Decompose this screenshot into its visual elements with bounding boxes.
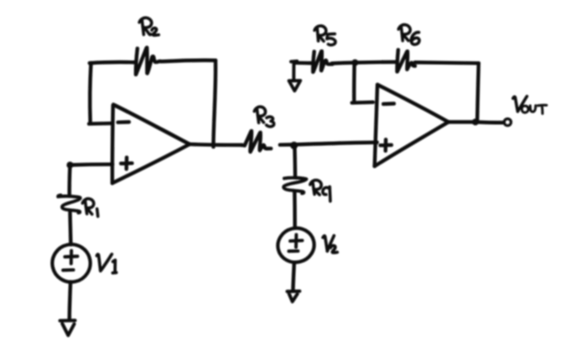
ground at R5 — [289, 61, 300, 91]
wire to output terminal — [475, 120, 502, 124]
resistor R5 — [311, 51, 332, 72]
ground under V2 — [287, 291, 299, 301]
wire R5 to node C — [332, 61, 355, 66]
wire U1 noninverting input — [70, 162, 113, 166]
label R6 — [399, 25, 420, 45]
resistor R6 — [396, 50, 415, 72]
wire node B down to R4 — [293, 145, 297, 177]
wire node C to R6 — [355, 60, 396, 64]
V2 plus sign — [290, 235, 302, 248]
wire R4 to V2 — [293, 192, 297, 229]
wire V1 to ground — [69, 282, 70, 320]
wire R3 to node B — [280, 143, 293, 147]
wire U1 output — [190, 142, 243, 147]
wire ground to R5 — [294, 61, 311, 65]
V2 minus sign — [289, 249, 298, 252]
wire node C down to U2 inverting input — [352, 63, 356, 100]
wire R6 to right corner — [415, 61, 479, 65]
wire right vertical down to output — [477, 63, 478, 121]
wire feedback left vertical (R2 loop) — [90, 63, 91, 123]
node A junction dot — [67, 162, 74, 169]
V1 plus sign — [65, 251, 78, 264]
wire right vertical of R2 loop — [213, 60, 215, 146]
resistor R2 — [133, 48, 160, 75]
U2 minus sign — [383, 102, 394, 106]
U1 plus sign — [121, 158, 132, 170]
resistor R1 — [58, 195, 80, 213]
wire node B to U2 noninverting input — [294, 142, 378, 144]
wire top right segment from R2 — [161, 60, 216, 61]
wire R1 to V1 — [68, 211, 73, 245]
output terminal circle — [504, 119, 511, 126]
label V2 — [323, 236, 337, 253]
V1 minus sign — [63, 268, 73, 272]
op-amp U2 — [375, 85, 378, 167]
ground under V1 — [60, 320, 75, 335]
wire top left segment to R2 — [90, 60, 133, 65]
source V2 — [274, 224, 318, 266]
resistor R3 — [242, 131, 271, 152]
node B junction dot — [290, 142, 298, 150]
label V1 — [97, 254, 117, 273]
U1 inverting input wire stub — [89, 121, 112, 125]
wire node A down to R1 — [68, 165, 72, 196]
op-amp U1 — [110, 106, 114, 184]
label R1 — [83, 199, 98, 217]
wire V2 to ground — [293, 262, 294, 291]
resistor R4 — [284, 178, 307, 194]
U2 plus sign — [380, 140, 391, 151]
label R4 — [310, 180, 330, 201]
node C junction dot — [352, 59, 359, 66]
U1 minus sign — [118, 120, 129, 124]
label R5 — [315, 26, 336, 45]
label Vout — [513, 96, 547, 113]
U2 inverting input wire stub — [352, 100, 373, 104]
node D junction dot — [472, 119, 479, 126]
label R3 — [254, 107, 274, 127]
label R2 — [139, 18, 158, 35]
source V1 — [49, 241, 94, 286]
wire U2 output — [448, 120, 475, 124]
